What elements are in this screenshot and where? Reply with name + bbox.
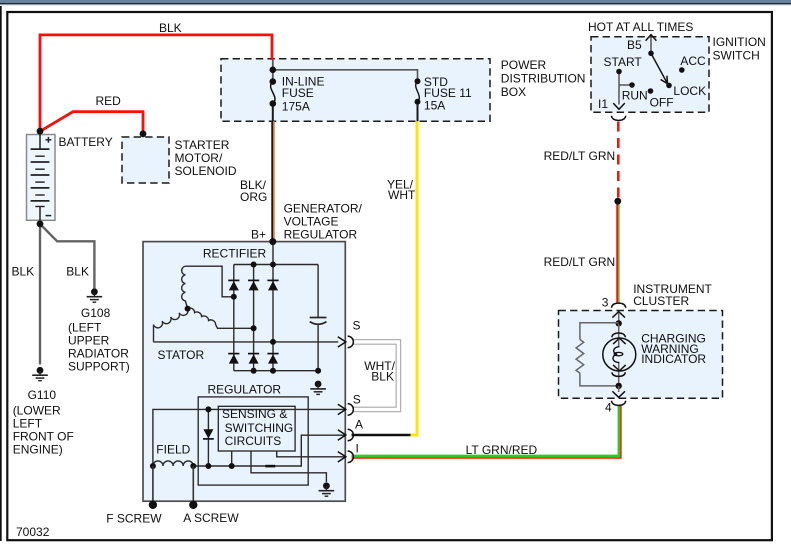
svg-text:SOLENOID: SOLENOID bbox=[175, 164, 237, 178]
svg-text:START: START bbox=[604, 55, 643, 69]
svg-text:ENGINE): ENGINE) bbox=[13, 442, 63, 456]
svg-text:BLK: BLK bbox=[12, 265, 35, 279]
svg-text:DISTRIBUTION: DISTRIBUTION bbox=[501, 72, 586, 86]
svg-text:S: S bbox=[353, 319, 361, 333]
svg-text:A SCREW: A SCREW bbox=[183, 511, 239, 525]
svg-text:HOT AT ALL TIMES: HOT AT ALL TIMES bbox=[588, 20, 693, 34]
svg-text:LT GRN/RED: LT GRN/RED bbox=[466, 443, 538, 457]
svg-text:BLK: BLK bbox=[159, 21, 182, 35]
svg-text:ORG: ORG bbox=[240, 190, 267, 204]
svg-text:B+: B+ bbox=[251, 228, 266, 242]
svg-text:BLK: BLK bbox=[66, 265, 89, 279]
svg-text:I: I bbox=[356, 441, 359, 455]
svg-text:RED/LT GRN: RED/LT GRN bbox=[544, 149, 616, 163]
svg-text:(LEFT: (LEFT bbox=[68, 321, 102, 335]
svg-text:RED: RED bbox=[96, 94, 122, 108]
svg-text:BOX: BOX bbox=[501, 85, 526, 99]
svg-text:OFF: OFF bbox=[650, 95, 674, 109]
svg-text:BATTERY: BATTERY bbox=[59, 135, 113, 149]
svg-text:INDICATOR: INDICATOR bbox=[641, 352, 706, 366]
svg-text:STATOR: STATOR bbox=[158, 348, 205, 362]
svg-text:4: 4 bbox=[605, 400, 612, 414]
svg-text:POWER: POWER bbox=[501, 58, 547, 72]
svg-text:GENERATOR/: GENERATOR/ bbox=[284, 201, 363, 215]
svg-text:RUN: RUN bbox=[622, 88, 648, 102]
svg-text:B5: B5 bbox=[627, 38, 642, 52]
svg-text:ACC: ACC bbox=[680, 54, 706, 68]
svg-text:REGULATOR: REGULATOR bbox=[284, 227, 358, 241]
svg-text:FRONT OF: FRONT OF bbox=[13, 429, 74, 443]
svg-text:FUSE: FUSE bbox=[282, 86, 314, 100]
svg-text:F SCREW: F SCREW bbox=[106, 512, 162, 526]
svg-text:3: 3 bbox=[602, 295, 609, 309]
svg-text:SENSING &: SENSING & bbox=[222, 407, 287, 421]
svg-text:175A: 175A bbox=[282, 99, 310, 113]
svg-text:CLUSTER: CLUSTER bbox=[633, 294, 689, 308]
svg-text:S: S bbox=[353, 393, 361, 407]
svg-text:LEFT: LEFT bbox=[13, 416, 43, 430]
svg-text:G108: G108 bbox=[81, 306, 111, 320]
svg-text:SWITCH: SWITCH bbox=[713, 49, 760, 63]
svg-text:BLK: BLK bbox=[371, 369, 394, 383]
svg-text:MOTOR/: MOTOR/ bbox=[175, 151, 223, 165]
svg-text:I1: I1 bbox=[598, 97, 608, 111]
svg-text:IGNITION: IGNITION bbox=[713, 35, 766, 49]
svg-text:VOLTAGE: VOLTAGE bbox=[284, 214, 339, 228]
svg-text:STARTER: STARTER bbox=[175, 138, 230, 152]
svg-text:RED/LT GRN: RED/LT GRN bbox=[544, 255, 616, 269]
svg-text:G110: G110 bbox=[28, 388, 57, 402]
svg-text:15A: 15A bbox=[424, 99, 445, 113]
svg-text:SUPPORT): SUPPORT) bbox=[68, 360, 130, 374]
svg-text:RADIATOR: RADIATOR bbox=[68, 347, 129, 361]
svg-text:70032: 70032 bbox=[16, 525, 50, 539]
svg-text:REGULATOR: REGULATOR bbox=[208, 383, 282, 397]
svg-text:UPPER: UPPER bbox=[68, 334, 110, 348]
svg-text:A: A bbox=[355, 418, 363, 432]
svg-text:WHT: WHT bbox=[388, 188, 416, 202]
svg-text:FIELD: FIELD bbox=[156, 442, 190, 456]
svg-text:LOCK: LOCK bbox=[673, 84, 706, 98]
svg-text:(LOWER: (LOWER bbox=[13, 403, 61, 417]
svg-text:CIRCUITS: CIRCUITS bbox=[225, 434, 282, 448]
svg-text:RECTIFIER: RECTIFIER bbox=[203, 247, 267, 261]
